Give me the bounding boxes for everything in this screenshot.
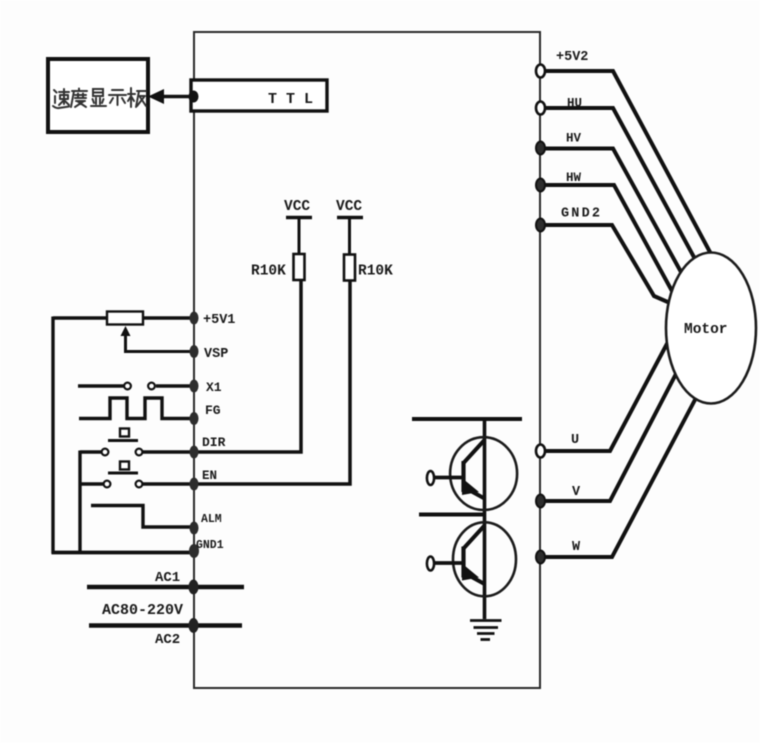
pin +5V2 xyxy=(536,50,588,78)
node AC1 xyxy=(189,580,199,595)
速 xyxy=(53,90,69,108)
wire EN to R2 xyxy=(142,281,350,485)
pin +5V1 xyxy=(190,312,236,329)
label AC2 xyxy=(155,632,180,648)
svg-text:V: V xyxy=(572,485,581,500)
pin EN xyxy=(190,469,218,491)
svg-text:X1: X1 xyxy=(206,380,222,395)
motor M1 xyxy=(666,253,756,404)
junction dot at TTL xyxy=(189,91,199,103)
svg-text:AC2: AC2 xyxy=(155,632,180,648)
transistor Q2 xyxy=(427,522,516,596)
svg-text:AC1: AC1 xyxy=(155,570,180,586)
显 xyxy=(91,89,106,106)
mid rail bar xyxy=(419,513,485,517)
svg-text:R10K: R10K xyxy=(251,264,286,280)
板 xyxy=(128,88,135,107)
svg-text:ALM: ALM xyxy=(201,513,222,526)
controller box U1 xyxy=(194,32,540,688)
pin FG xyxy=(190,403,221,425)
transistor Q1 xyxy=(427,437,517,510)
svg-text:VSP: VSP xyxy=(204,347,228,362)
pin X1 xyxy=(190,380,222,396)
svg-text:Motor: Motor xyxy=(684,322,728,338)
wire HW xyxy=(545,185,672,291)
wire DIR to R1 xyxy=(142,280,301,452)
resistor R1 R10K xyxy=(251,254,305,280)
pin U xyxy=(536,433,579,458)
pin GND2 xyxy=(536,207,602,232)
pushbutton SB2 on EN xyxy=(80,462,142,488)
collector rail bar xyxy=(412,417,522,421)
svg-text:W: W xyxy=(572,540,581,555)
svg-text:U: U xyxy=(571,433,579,448)
pin W xyxy=(536,540,581,564)
svg-text:AC80-220V: AC80-220V xyxy=(102,602,183,619)
svg-text:FG: FG xyxy=(205,403,221,418)
resistor R2 R10K xyxy=(344,255,393,281)
svg-text:+5V1: +5V1 xyxy=(203,313,235,328)
VCC rail 1 xyxy=(284,199,312,255)
svg-text:T T L: T T L xyxy=(268,91,313,108)
svg-text:GND1: GND1 xyxy=(196,539,224,552)
potentiometer RP1 xyxy=(107,312,192,352)
wire GND2 xyxy=(545,225,670,303)
svg-text:VCC: VCC xyxy=(336,199,362,215)
示 xyxy=(109,90,126,105)
pin HV xyxy=(536,132,582,155)
svg-text:R10K: R10K xyxy=(358,264,393,280)
center vertical wire xyxy=(483,419,487,619)
wire U xyxy=(545,340,669,451)
switch S1 on X1 xyxy=(78,383,192,390)
度 xyxy=(71,89,87,108)
pin GND1 xyxy=(189,539,224,558)
svg-text:VCC: VCC xyxy=(284,199,310,215)
pushbutton SB1 on DIR xyxy=(80,429,142,456)
pin HW xyxy=(536,171,582,192)
label AC1 xyxy=(155,570,180,586)
wire ALM xyxy=(91,506,192,528)
left bus wire xyxy=(51,317,54,554)
VCC rail 2 xyxy=(336,199,363,255)
AC1 line xyxy=(87,585,244,589)
TTL interface box xyxy=(191,80,327,111)
pin V xyxy=(536,485,581,508)
wire HU xyxy=(545,108,695,259)
pin HU xyxy=(536,97,582,115)
arrow from controller to display board xyxy=(148,89,194,104)
pin VSP xyxy=(190,345,229,362)
label 速度显示板 (drawn strokes) xyxy=(53,88,146,108)
svg-text:DIR: DIR xyxy=(202,435,226,450)
ground xyxy=(470,621,502,640)
wire W xyxy=(545,396,697,557)
svg-text:EN: EN xyxy=(202,469,217,483)
svg-text:GND2: GND2 xyxy=(561,207,602,222)
label AC80-220V xyxy=(102,602,183,619)
pin ALM xyxy=(190,513,222,535)
FG pulse waveform xyxy=(79,398,191,419)
wire GND1 xyxy=(52,551,198,555)
wire HV xyxy=(545,149,681,273)
svg-text:HV: HV xyxy=(566,132,582,146)
svg-text:HU: HU xyxy=(567,97,582,111)
wire +5V2 xyxy=(545,71,711,254)
wire V xyxy=(545,370,678,501)
button bus wire xyxy=(78,451,81,554)
svg-text:HW: HW xyxy=(566,171,582,185)
wire +5V1 xyxy=(53,316,192,319)
node AC2 xyxy=(189,618,199,633)
pin DIR xyxy=(190,435,226,459)
AC2 line xyxy=(89,623,242,627)
speed display board box xyxy=(48,59,148,132)
svg-text:+5V2: +5V2 xyxy=(556,50,588,65)
